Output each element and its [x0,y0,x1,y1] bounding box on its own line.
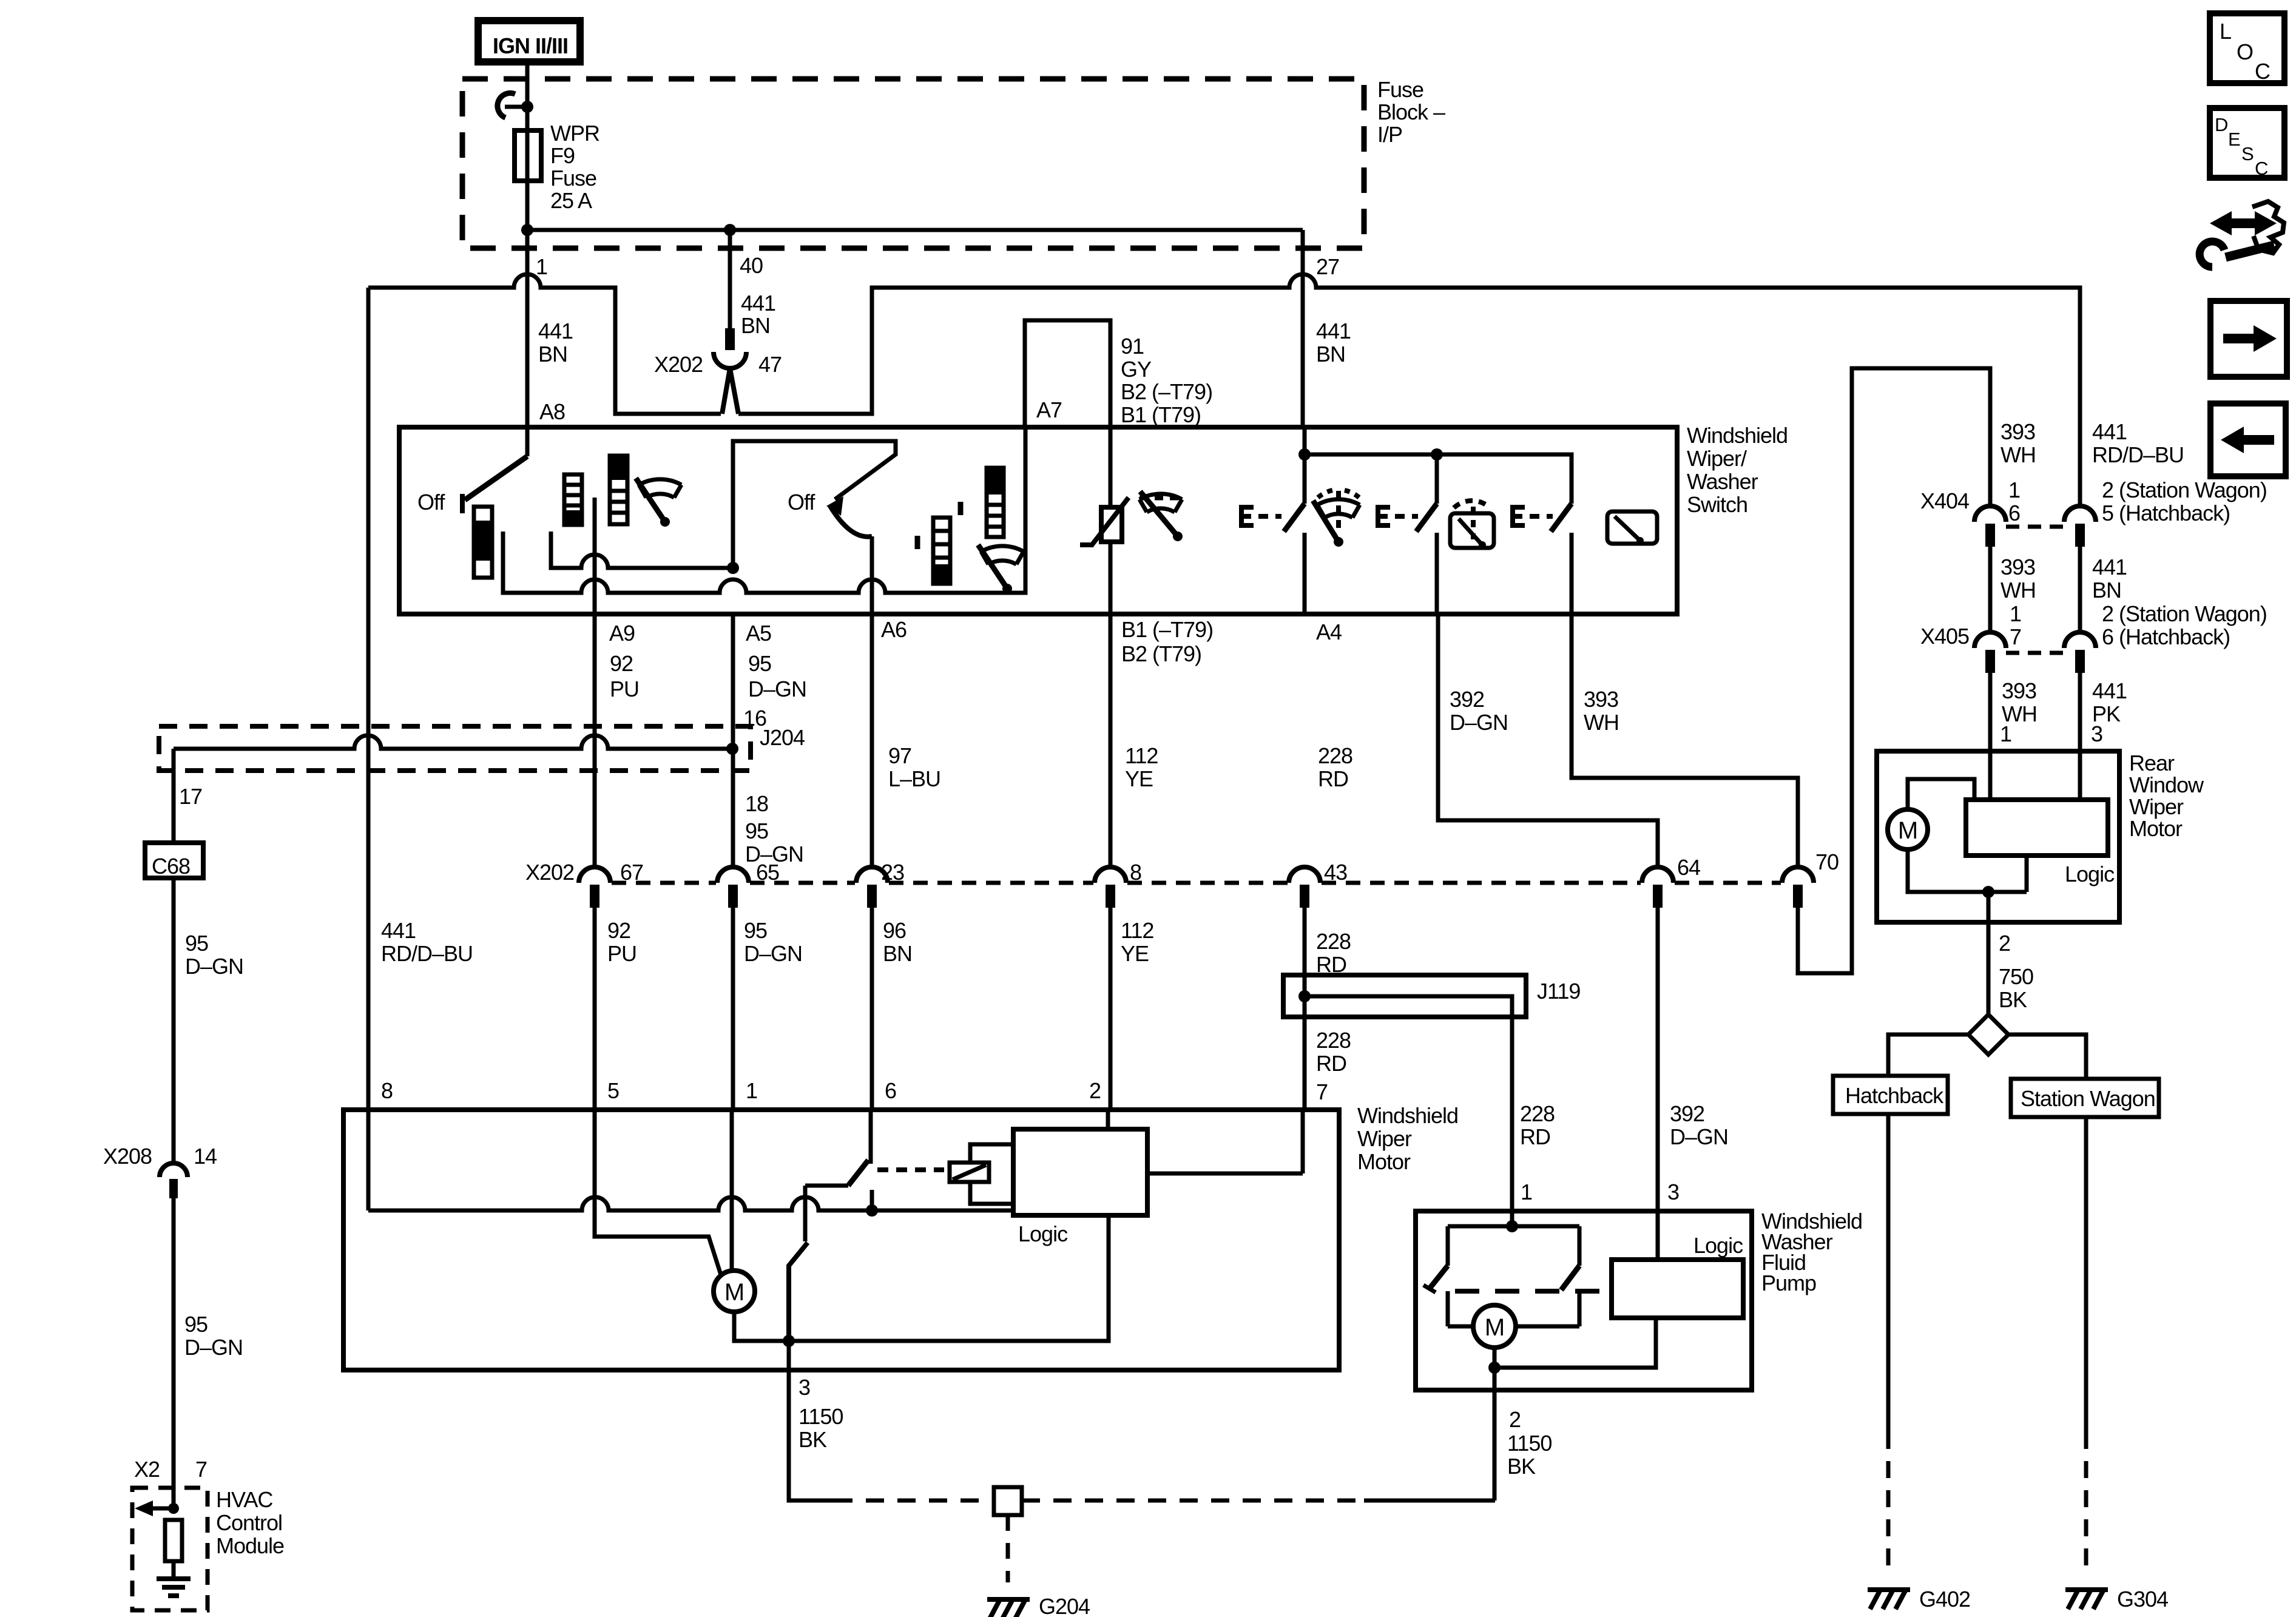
washer motor M [1448,1325,1579,1329]
svg-text:2 (Station Wagon): 2 (Station Wagon) [2102,478,2267,502]
wires X404 to X405 [1990,547,2080,632]
svg-text:91: 91 [1121,334,1144,359]
svg-text:441: 441 [2092,555,2127,579]
svg-text:Off: Off [788,490,815,515]
svg-text:1: 1 [1521,1180,1532,1204]
ground run to G204 [834,1499,994,1503]
resistor ladder bar 1 [474,507,492,578]
svg-text:A8: A8 [539,399,565,424]
motor internal bus (pin 8) [368,1197,1013,1210]
switch E1 (mist) [1241,505,1254,528]
rear motor M [1888,809,1928,849]
svg-text:6 (Hatchback): 6 (Hatchback) [2102,624,2230,649]
resistor ladder bar 3 [610,456,627,524]
svg-text:2: 2 [1999,931,2010,956]
fuse block dashed box Fuse Block - I/P [462,79,1364,248]
logic module (wiper motor) [1013,1129,1147,1215]
park switch contacts [869,1110,873,1164]
svg-text:Block –: Block – [1377,100,1445,124]
ground G204 [987,1599,1030,1617]
svg-text:J204: J204 [760,725,805,750]
svg-text:Wiper/: Wiper/ [1687,446,1747,471]
wire pin 5 to motor [595,1110,721,1277]
svg-text:3: 3 [799,1375,810,1400]
svg-text:5 (Hatchback): 5 (Hatchback) [2102,501,2230,525]
svg-text:M: M [1898,817,1917,844]
svg-text:A4: A4 [1316,619,1342,644]
svg-text:1: 1 [536,254,547,279]
svg-text:D–GN: D–GN [1450,710,1508,735]
svg-text:92: 92 [607,918,630,943]
washer coupling dashes [1455,1289,1609,1294]
svg-text:1: 1 [2010,601,2021,626]
svg-text:393: 393 [1584,687,1618,712]
svg-text:14: 14 [194,1144,217,1169]
svg-text:750: 750 [1999,964,2033,989]
svg-text:BN: BN [883,941,912,966]
svg-text:D–GN: D–GN [745,842,803,866]
svg-text:E: E [2228,129,2240,150]
svg-text:Pump: Pump [1761,1271,1816,1295]
svg-text:C: C [2255,59,2270,84]
svg-text:D–GN: D–GN [1670,1124,1728,1149]
wire station wagon to G304 [2084,1117,2088,1432]
svg-text:C: C [2255,158,2268,179]
ground (HVAC internal) [157,1579,191,1596]
wires X405 to rear wiper motor [1990,673,2080,800]
power tag IGN II/III [478,21,580,62]
svg-text:PU: PU [610,677,639,701]
svg-text:392: 392 [1670,1101,1704,1126]
Hatchback tag [1833,1076,1948,1114]
svg-text:5: 5 [607,1078,619,1103]
wire 441 RD/D-BU main run (left drop, X202-47 detour, to X404) [368,274,721,414]
svg-text:Logic: Logic [1018,1221,1068,1246]
svg-text:95: 95 [744,918,767,943]
svg-text:7: 7 [2010,624,2021,649]
tick marks [917,502,961,549]
wire B1/B2 column through rheostat [1109,427,1113,867]
svg-text:Motor: Motor [1357,1149,1411,1174]
svg-text:YE: YE [1121,941,1149,966]
washer logic module [1612,1260,1743,1318]
svg-text:228: 228 [1520,1101,1555,1126]
svg-text:RD: RD [1316,1051,1346,1076]
svg-text:HVAC: HVAC [216,1487,272,1512]
svg-text:C68: C68 [152,854,190,879]
svg-text:2: 2 [1509,1407,1521,1432]
wire washer pin 2 1150 BK [1493,1368,1497,1501]
svg-text:393: 393 [2001,419,2035,444]
wiper icon low speed [636,478,681,527]
svg-text:6: 6 [2008,501,2020,525]
svg-text:6: 6 [885,1078,896,1103]
wire 393 WH A1 to X202-70 [1572,614,1798,867]
svg-text:B1 (T79): B1 (T79) [1121,402,1201,427]
connector C68 [145,843,203,878]
wire A7 to B1/B2 loop 91 GY [1025,320,1110,427]
svg-text:Washer: Washer [1687,469,1758,494]
svg-text:228: 228 [1318,743,1352,768]
splice J119 [1283,975,1526,1017]
splice pack J204 dashed box [159,726,751,771]
switch E3 (rear) [1513,505,1525,528]
svg-text:Control: Control [216,1510,282,1535]
svg-text:X202: X202 [525,860,574,885]
svg-text:112: 112 [1125,743,1158,768]
windshield wiper motor box [343,1110,1339,1370]
svg-text:392: 392 [1450,687,1484,712]
washer switch right blade [1578,1226,1582,1266]
wire 92 PU A9 to motor pin 5 [593,908,597,1110]
contact bracket bus B [503,427,1025,593]
svg-text:X2: X2 [134,1457,160,1482]
switch S2 Off blade (A5/A6) [733,441,896,568]
svg-text:95: 95 [184,1312,208,1337]
svg-text:Module: Module [216,1533,284,1558]
wire 393 WH X202-70 to X404 [1798,368,1990,973]
svg-text:L–BU: L–BU [888,766,940,791]
svg-text:8: 8 [381,1078,393,1103]
svg-text:RD: RD [1520,1124,1550,1149]
connector X404 [1974,506,2006,522]
wire 96 BN A6 to motor pin 6 [870,908,874,1110]
svg-text:D–GN: D–GN [748,677,806,701]
svg-text:95: 95 [748,651,771,676]
svg-text:1150: 1150 [1507,1431,1551,1456]
svg-text:WPR: WPR [550,121,599,146]
svg-text:393: 393 [2002,678,2036,703]
windshield washer fluid pump box [1416,1211,1752,1390]
relay coil dashes [877,1167,944,1172]
svg-text:WH: WH [2001,578,2036,603]
svg-text:X208: X208 [103,1144,152,1169]
rear window wiper motor box [1877,751,2119,922]
fuse F9 WPR 25A [525,107,530,130]
wiper icon high speed [978,545,1024,593]
wire to Hatchback [1888,1035,1968,1076]
svg-text:O: O [2237,39,2253,64]
connector X405 [1974,632,2006,648]
wire pin 27 441 BN down to A3 [1301,230,1305,427]
svg-text:92: 92 [610,651,633,676]
motor M [714,1271,755,1312]
wire 392 D-GN X202-64 to washer pump pin 3 [1656,908,1660,1260]
wire A3 feed bus to wash switches [1303,427,1307,504]
wire 17 to C68 and HVAC [172,749,176,843]
svg-text:25 A: 25 A [550,188,592,213]
svg-text:Rear: Rear [2129,751,2175,775]
svg-text:97: 97 [888,743,911,768]
svg-text:A9: A9 [609,621,635,646]
svg-text:A5: A5 [746,621,771,646]
svg-text:7: 7 [195,1457,207,1482]
J204 internal bus [174,735,732,749]
svg-text:B1 (–T79): B1 (–T79) [1121,617,1213,642]
svg-text:F9: F9 [550,143,575,168]
svg-text:BN: BN [1316,342,1345,366]
wire pin 1 441 BN down to A8 [525,230,530,427]
svg-text:G402: G402 [1919,1587,1970,1612]
washer switch left blade [1446,1226,1450,1266]
svg-text:8: 8 [1130,860,1141,885]
svg-text:I/P: I/P [1377,122,1402,147]
connector row X202 dashed line [612,881,716,885]
svg-text:95: 95 [745,819,768,843]
rear window icon [1607,511,1657,544]
wire rear pin 2 750 BK [1987,892,1991,1014]
svg-text:BN: BN [2092,578,2121,603]
svg-text:27: 27 [1316,254,1339,279]
svg-text:1: 1 [2000,721,2011,746]
switch E2 (wash) [1378,505,1390,528]
svg-text:43: 43 [1324,860,1347,885]
wiper spray icon [1313,490,1360,547]
svg-text:RD: RD [1318,766,1348,791]
connector X202 pin 47 [725,328,735,350]
svg-text:18: 18 [745,791,768,816]
svg-text:47: 47 [758,352,782,377]
svg-text:16: 16 [743,706,766,731]
svg-text:PU: PU [607,941,636,966]
svg-text:IGN II/III: IGN II/III [493,33,568,58]
wire A9 column [593,498,597,867]
svg-text:Motor: Motor [2129,816,2183,841]
svg-text:Station Wagon: Station Wagon [2021,1086,2155,1111]
HVAC control module dashed box [132,1488,208,1610]
svg-text:B2 (T79): B2 (T79) [1121,641,1201,666]
ground G304 [2065,1590,2108,1609]
icon box LOC [2210,13,2284,83]
icon box DESC [2210,108,2284,178]
HVAC internal arrow [172,1488,176,1508]
washer switch top bus [1448,1224,1579,1229]
svg-text:441: 441 [741,291,775,316]
washer icon [1450,501,1494,549]
wire A6 column [870,536,874,867]
svg-text:7: 7 [1316,1079,1328,1104]
svg-text:J119: J119 [1537,979,1580,1004]
svg-text:441: 441 [2092,419,2127,444]
icon right arrow box [2210,301,2287,377]
svg-text:2 (Station Wagon): 2 (Station Wagon) [2102,601,2267,626]
svg-text:L: L [2220,19,2231,44]
svg-text:A6: A6 [881,617,907,642]
svg-text:RD/D–BU: RD/D–BU [2092,442,2184,467]
svg-text:Fuse: Fuse [1377,77,1423,102]
motor lower bus to pin 2/logic [734,1215,1109,1341]
wire 112 YE B1 to motor pin 2 [1109,908,1113,1110]
wire hatchback to G402 [1886,1114,1891,1432]
svg-text:G204: G204 [1039,1594,1090,1617]
ground G402 [1868,1590,1910,1609]
X202 connector arcs and plugs [579,867,610,883]
resistor ladder bar 5 [987,468,1004,537]
svg-text:X404: X404 [1920,488,1969,513]
connector X208 pin 14 [160,1163,187,1177]
svg-text:228: 228 [1316,1028,1351,1053]
svg-text:X202: X202 [654,352,703,377]
svg-text:Switch: Switch [1687,492,1747,517]
svg-text:Fuse: Fuse [550,166,596,191]
svg-text:GY: GY [1121,357,1152,382]
svg-text:441: 441 [381,918,416,943]
splice diamond [1968,1014,2008,1055]
svg-text:D–GN: D–GN [184,1335,243,1360]
wire pin 1 to motor [730,1110,734,1271]
HVAC internal element [165,1520,182,1561]
svg-text:3: 3 [2091,721,2102,746]
icon double arrow with wrench [2228,218,2258,228]
svg-text:96: 96 [883,918,906,943]
svg-text:Wiper: Wiper [1357,1126,1412,1151]
wire pin 3 1150 BK [789,1341,834,1501]
wire pin 40 441 BN down to X202-47 [728,230,732,328]
svg-text:YE: YE [1125,766,1153,791]
svg-text:3: 3 [1667,1180,1679,1204]
node junction to pin 40 [724,224,736,236]
svg-text:D: D [2215,114,2227,135]
svg-text:17: 17 [179,784,202,809]
washer lower bus [1494,1318,1656,1368]
svg-text:Logic: Logic [2065,862,2115,886]
svg-text:S: S [2241,143,2254,164]
wire 95 D-GN A5 to motor pin 1 [731,614,735,867]
svg-text:A7: A7 [1036,397,1062,422]
svg-text:M: M [724,1279,744,1306]
switch (ignition feed contact) inside fuse block [521,101,533,113]
svg-text:RD/D–BU: RD/D–BU [381,941,473,966]
Station Wagon tag [2011,1079,2159,1117]
svg-text:Windshield: Windshield [1687,423,1788,448]
svg-text:BK: BK [1999,987,2027,1012]
icon left arrow box [2210,403,2286,476]
svg-text:WH: WH [2001,442,2036,467]
svg-text:441: 441 [2092,678,2127,703]
svg-text:M: M [1485,1314,1504,1341]
svg-text:95: 95 [185,931,208,956]
svg-text:Logic: Logic [1693,1233,1743,1258]
wiper icon delay (dashes above) [1140,496,1181,501]
wire 441 RD/D-BU to wiper motor pin 8 [366,288,371,1210]
wire 228 RD A4 to J119 and motor pin 7 [1303,908,1307,1110]
relay solenoid [950,1163,989,1182]
svg-text:B2 (–T79): B2 (–T79) [1121,379,1212,404]
svg-text:X405: X405 [1920,624,1969,649]
resistor ladder bar 2 [564,474,582,525]
svg-text:64: 64 [1677,855,1700,880]
svg-text:393: 393 [2001,555,2035,579]
svg-text:67: 67 [620,860,643,885]
svg-text:441: 441 [1316,319,1351,343]
contact bracket bus A [551,532,733,568]
svg-text:40: 40 [740,253,763,278]
windshield wiper/washer switch box [399,427,1677,614]
svg-text:BN: BN [741,313,770,338]
resistor ladder bar 4 [933,518,950,584]
svg-text:70: 70 [1815,849,1838,874]
svg-text:Windshield: Windshield [1357,1103,1458,1128]
svg-text:2: 2 [1089,1078,1101,1103]
svg-text:1: 1 [746,1078,757,1103]
svg-text:228: 228 [1316,929,1351,954]
svg-text:1150: 1150 [799,1404,843,1429]
rear logic module [1966,800,2108,856]
svg-text:Window: Window [2129,772,2204,797]
svg-text:WH: WH [1584,710,1619,735]
svg-text:D–GN: D–GN [185,954,243,979]
svg-text:Wiper: Wiper [2129,794,2184,819]
svg-text:Hatchback: Hatchback [1845,1083,1944,1108]
svg-text:BK: BK [1507,1454,1536,1479]
wire to Station Wagon [2008,1035,2086,1079]
svg-text:Off: Off [417,490,445,515]
wire IGN to fuse block switch [525,62,530,107]
svg-text:BN: BN [538,342,567,366]
rheostat (variable delay) [1101,507,1122,542]
wire 392 D-GN A2 to X202-64 [1438,614,1658,867]
svg-text:441: 441 [538,319,573,343]
svg-text:112: 112 [1121,918,1153,943]
svg-text:G304: G304 [2117,1587,2168,1612]
switch S1 Off blade (A8) [525,427,530,456]
svg-text:1: 1 [2008,478,2020,502]
svg-text:D–GN: D–GN [744,941,802,966]
wire fuse output bus inside fuse block [527,228,1303,232]
svg-text:BK: BK [799,1427,827,1452]
